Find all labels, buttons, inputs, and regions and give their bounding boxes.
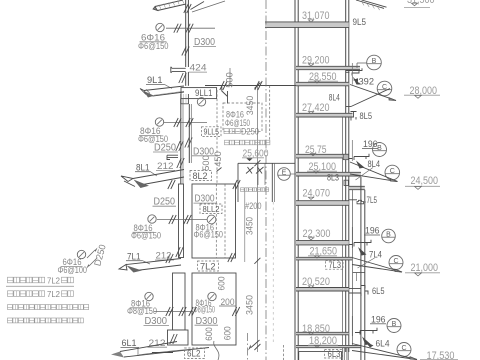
svg-text:8L5: 8L5: [360, 111, 373, 121]
lower right wall: [360, 177, 362, 360]
svg-text:600: 600: [204, 327, 214, 341]
rebar circle below 9LL1: [197, 98, 205, 106]
eave 7L1: [126, 259, 181, 265]
arrow at 17,530: [362, 337, 371, 346]
note line 4: [8, 318, 84, 323]
svg-text:8LL2: 8LL2: [203, 204, 220, 214]
7L2 label dashed box: [198, 261, 219, 271]
detail bubble B at 28,000: [367, 55, 382, 70]
stair landing outline 25,600: [238, 162, 295, 164]
svg-text:196: 196: [371, 314, 386, 325]
bracket at 24,500: [349, 154, 369, 160]
floor slab 24,070 level: [296, 201, 349, 206]
svg-text:21,000: 21,000: [411, 262, 439, 274]
level leader 21,000: [405, 272, 440, 274]
bracket at 9L1: [171, 67, 186, 73]
dashed box attached column level 8: [223, 103, 262, 131]
beam label 6L4 with arrow: [365, 342, 374, 348]
tower inner pier line: [342, 117, 344, 360]
svg-text:6L4: 6L4: [376, 339, 390, 349]
beam label 7L5 and bracket: [349, 199, 357, 201]
svg-text:27,420: 27,420: [302, 102, 330, 114]
dim 196 at 24,500: [351, 140, 353, 161]
svg-text:200: 200: [221, 296, 235, 307]
svg-text:8L3: 8L3: [327, 173, 339, 183]
leader line right of stair rect: [244, 188, 246, 262]
rebar circle level 6 left: [145, 292, 153, 300]
right wall stub below 21,000 eave: [353, 272, 365, 274]
svg-text:3450: 3450: [245, 96, 255, 116]
svg-text:9L1: 9L1: [147, 75, 163, 85]
svg-text:B: B: [372, 58, 377, 65]
note line 2: [8, 291, 45, 297]
arrow at 21,000: [358, 247, 367, 256]
svg-text:392: 392: [359, 75, 375, 86]
tower left wall: [294, 0, 296, 360]
floor slab 28,550 level: [296, 82, 349, 86]
svg-text:8L1: 8L1: [136, 162, 150, 172]
svg-text:Φ6@150: Φ6@150: [138, 41, 169, 52]
level leader 24,500: [405, 185, 440, 187]
svg-text:450: 450: [213, 151, 223, 167]
svg-text:6L5: 6L5: [372, 286, 385, 296]
right wall stub at 24,500: [349, 186, 365, 189]
level leader 31,500 top: [404, 7, 430, 9]
beam label 6L3: [325, 350, 343, 359]
break marks at 8L1: [177, 158, 181, 168]
svg-text:212: 212: [157, 160, 174, 171]
rebar circle level 7 left: [148, 215, 156, 223]
svg-text:28,000: 28,000: [410, 85, 438, 97]
note line 1: [8, 277, 45, 283]
vertical dimension line: [256, 86, 258, 353]
landing line to left structure: [205, 85, 296, 87]
break marks at 6L1: [170, 334, 174, 344]
detail bubble B at 24,500: [373, 143, 387, 157]
dim arrow 392: [351, 63, 353, 85]
svg-text:7L1: 7L1: [127, 251, 141, 261]
svg-text:424: 424: [190, 62, 207, 73]
svg-text:6L3: 6L3: [328, 349, 341, 359]
svg-text:Φ6@150: Φ6@150: [131, 231, 161, 242]
right eave at 28,000: [350, 85, 396, 101]
cjk note precast slab position: [225, 140, 270, 145]
svg-text:8L4: 8L4: [368, 159, 381, 169]
bottom line left: [152, 352, 173, 354]
svg-text:8L2: 8L2: [193, 171, 208, 181]
svg-text:24,500: 24,500: [411, 175, 439, 187]
svg-text:9LL1: 9LL1: [195, 88, 213, 98]
label concrete wall beside stair: [241, 188, 269, 192]
detail bubble C at 21,000: [389, 256, 403, 270]
short verticals below landing: [257, 163, 259, 185]
stair room rect level 6: [192, 273, 236, 345]
svg-text:7L5: 7L5: [367, 195, 378, 205]
left wall middle section: [180, 99, 182, 184]
beam 8L4 cut section at slab E: [343, 154, 348, 159]
floor slab 29,200 level: [296, 66, 360, 69]
column level 7 (white): [179, 184, 184, 258]
svg-text:3450: 3450: [245, 295, 255, 315]
svg-text:500: 500: [201, 155, 211, 171]
eave 8L1: [133, 170, 184, 179]
svg-text:Φ6@150: Φ6@150: [194, 230, 224, 241]
svg-text:600: 600: [223, 326, 233, 340]
break marks on upper wall: [184, 4, 188, 13]
rebar circle level 8: [155, 118, 163, 126]
svg-text:E: E: [282, 170, 287, 177]
rebar annotation lower-left roof: [77, 250, 85, 258]
break x marks below 25,600: [246, 167, 254, 174]
svg-text:C: C: [401, 345, 406, 352]
svg-text:7L2: 7L2: [200, 262, 216, 272]
floor slab 25,75 level: [296, 154, 349, 158]
bracket at 17,530: [355, 328, 377, 335]
column level 6 (white): [173, 273, 186, 330]
floor slab 18,850 level: [296, 332, 349, 335]
detail bubble B at 21,000: [382, 229, 396, 243]
svg-text:17,530: 17,530: [427, 350, 455, 360]
top eave cut roof left: [155, 0, 183, 7]
svg-text:212: 212: [156, 250, 172, 261]
svg-text:22,300: 22,300: [303, 228, 331, 240]
beam label 6L5 and bracket: [349, 286, 368, 297]
9LL1 label box: [181, 88, 217, 99]
svg-text:20,520: 20,520: [302, 276, 330, 288]
floor slab 21,650 level: [296, 257, 352, 260]
rebar leader level 7: [157, 219, 207, 221]
detail bubble C at 17,530: [397, 343, 411, 357]
rebar circle level 7 right: [207, 215, 216, 224]
long dashed vertical left of centerline: [216, 90, 218, 184]
corner mark at 8L2 level: [217, 168, 222, 172]
9LL5 label dashed box: [202, 127, 222, 137]
rebar leader level 8: [164, 122, 207, 124]
room below 18,200: [299, 351, 342, 353]
svg-text:3450: 3450: [245, 217, 255, 235]
svg-text:6L1: 6L1: [122, 338, 137, 348]
detail bubble B at 17,530: [387, 319, 401, 333]
right eave at 24,500: [350, 162, 398, 182]
rebar circle level 6 right: [208, 292, 216, 300]
svg-text:Φ6@100: Φ6@100: [58, 265, 88, 276]
svg-text:196: 196: [365, 225, 380, 236]
dim 196 at 17,530: [351, 316, 353, 336]
top right eave (cut roof): [356, 0, 384, 8]
note line 3: [8, 305, 89, 310]
svg-text:29,200: 29,200: [302, 54, 330, 66]
floor slab 31,070: [265, 22, 349, 28]
beam box bottom of column 6: [168, 330, 189, 345]
detail bubble C at 28,000: [377, 81, 392, 96]
svg-text:7L2: 7L2: [47, 289, 60, 299]
dim 196 at 21,000: [351, 227, 353, 248]
level leader 28,000: [404, 94, 440, 96]
level leader 17,530: [420, 358, 458, 360]
rebar leader level 9: [166, 27, 215, 29]
svg-text:9L5: 9L5: [353, 17, 367, 27]
svg-text:18,850: 18,850: [302, 323, 330, 335]
svg-text:C: C: [393, 258, 398, 265]
svg-text:#200: #200: [245, 200, 262, 211]
bracket at 21,000: [349, 240, 371, 247]
svg-text:B: B: [377, 145, 382, 152]
detail bubble E: [278, 168, 291, 181]
svg-text:7L2: 7L2: [47, 276, 60, 286]
eave 9L1: [144, 86, 184, 91]
beam label 8L5 and bracket: [351, 112, 357, 121]
svg-text:25,75: 25,75: [305, 144, 327, 156]
eave 6L1: [120, 342, 177, 352]
svg-text:B: B: [392, 321, 397, 328]
svg-text:B: B: [386, 232, 391, 239]
bottom dashdot marks: [247, 333, 249, 360]
break marks at 7L1: [176, 247, 180, 257]
detail bubble C at 24,500: [385, 165, 400, 180]
svg-text:C: C: [390, 168, 395, 175]
svg-text:8L4: 8L4: [329, 92, 340, 102]
floor slab 27,420 level: [296, 113, 353, 117]
6L2 label dashed box: [185, 348, 205, 359]
bracket at 8L1: [167, 155, 178, 159]
bracket at 28,550 slab right: [346, 68, 362, 75]
svg-text:7L4: 7L4: [369, 249, 382, 259]
rebar circle level 9: [156, 23, 164, 31]
svg-text:Φ8@150: Φ8@150: [194, 305, 216, 316]
svg-text:500: 500: [225, 72, 235, 88]
centerline dash-dot: [265, 0, 267, 360]
svg-text:600: 600: [217, 277, 227, 291]
floor slab 18,200 level: [296, 345, 361, 347]
dashed vertical right of dim line: [269, 86, 271, 143]
wall break marks mid: [176, 141, 180, 151]
svg-text:D250: D250: [241, 125, 259, 136]
svg-text:7L3: 7L3: [329, 260, 342, 270]
8L2 label dashed box: [190, 171, 212, 181]
small box below slab F: [344, 180, 348, 185]
floor slab 25,100 level: [296, 172, 361, 176]
floor slab 20,520 level: [296, 288, 349, 292]
dashed lines in level7 room: [215, 184, 217, 258]
top eave right diagonal: [191, 2, 205, 10]
svg-text:6L2: 6L2: [187, 349, 201, 359]
stair room rect level 7: [192, 184, 236, 258]
corner bracket right of 9LL1: [222, 86, 228, 104]
rebar leader level 6: [154, 311, 193, 313]
svg-text:31,070: 31,070: [302, 10, 330, 22]
beam label 7L3: [326, 261, 344, 270]
tower right wall: [345, 0, 347, 352]
beam section below 9L1 eave: [180, 94, 182, 104]
8LL2 label dashed box: [200, 204, 222, 214]
break marks at 9L1: [179, 73, 183, 83]
floor slab 22,300 level: [296, 241, 349, 245]
arrow at 24,500: [356, 161, 365, 169]
right eave at 21,000: [352, 258, 402, 273]
right eave at 17,530: [352, 344, 417, 360]
left wall upper: [185, 0, 187, 67]
svg-text:24,070: 24,070: [303, 188, 331, 200]
label fujiazhu D250: [224, 129, 240, 134]
